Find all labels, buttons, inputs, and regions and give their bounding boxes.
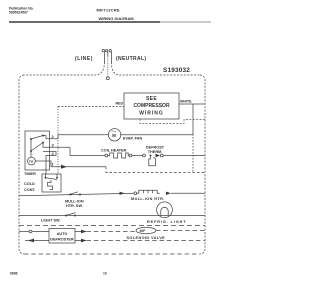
svg-text:(NEUTRAL): (NEUTRAL) <box>116 56 146 62</box>
svg-text:TIMER: TIMER <box>24 172 36 176</box>
svg-text:1: 1 <box>52 162 55 167</box>
timer wire C to terminal 3 <box>43 143 70 148</box>
svg-text:WIRING DIAGRAM: WIRING DIAGRAM <box>99 16 135 21</box>
svg-text:LIGHT SW.: LIGHT SW. <box>41 219 60 223</box>
wire defrost thermostat to neutral border <box>163 155 205 157</box>
label DEFROST THERM. <box>146 146 165 155</box>
svg-text:MRT13CRE: MRT13CRE <box>97 8 120 13</box>
wire compressor shell ground <box>140 119 205 124</box>
svg-text:DEFROSTER: DEFROSTER <box>50 238 74 242</box>
cold control stub left to terminal4 wire <box>45 174 47 178</box>
coil heater element R1 <box>108 153 130 158</box>
svg-text:COIL HEATER: COIL HEATER <box>101 149 127 153</box>
cold control bellows symbol <box>48 180 53 190</box>
compressor box text <box>133 96 170 117</box>
svg-text:THERM.: THERM. <box>148 150 163 154</box>
svg-text:HTR. SW.: HTR. SW. <box>66 204 83 208</box>
svg-text:RED: RED <box>116 102 124 106</box>
auto defroster box <box>49 229 75 244</box>
svg-text:AUTO: AUTO <box>57 232 68 236</box>
outer cabinet border bottom <box>24 253 200 255</box>
svg-text:REFRIG. LIGHT: REFRIG. LIGHT <box>147 220 187 224</box>
svg-text:TM: TM <box>29 159 34 163</box>
svg-text:10: 10 <box>103 272 107 276</box>
timer contact B <box>42 135 44 137</box>
svg-text:DEFROST: DEFROST <box>146 146 165 150</box>
header publication number text <box>9 7 34 15</box>
svg-text:MULL-ION: MULL-ION <box>65 200 84 204</box>
svg-text:0696: 0696 <box>10 272 18 276</box>
defrost thermostat bimetal bracket <box>149 157 156 166</box>
light switch <box>65 215 67 217</box>
coil heater terminal left <box>105 154 108 157</box>
svg-text:(LINE): (LINE) <box>75 56 93 62</box>
wire defroster bottom left with arrow <box>25 240 49 242</box>
cold control stub right to liner wire <box>56 174 58 178</box>
svg-text:M: M <box>112 133 116 138</box>
liner partition vertical x58 <box>57 107 59 175</box>
svg-text:COMPRESSOR: COMPRESSOR <box>133 103 170 109</box>
svg-text:3: 3 <box>52 143 55 148</box>
label MULL-ION HTR. SW. <box>65 200 84 209</box>
wire coil heater to defrost thermostat <box>132 155 143 157</box>
wire WHITE compressor to right border <box>179 103 205 105</box>
wire terminal 3 to coil heater <box>70 147 105 155</box>
ground terminal circle <box>106 77 109 80</box>
timer blade A-B <box>31 136 43 140</box>
mullion heater connector arrow right <box>166 192 171 195</box>
liner partition bottom dashed <box>19 225 205 227</box>
timer wire TM to terminal 1 <box>35 161 106 167</box>
svg-text:COLD: COLD <box>24 182 35 186</box>
timer wire B to terminal 2 <box>43 136 58 139</box>
evap fan motor <box>108 129 120 141</box>
svg-text:5995324597: 5995324597 <box>9 11 28 15</box>
wire plug left lead to left border <box>24 62 105 75</box>
wire terminal1 drop and defrost feed dashed <box>106 167 205 173</box>
wire mullion heater to neutral border <box>171 192 205 194</box>
svg-text:SOLENOID VALVE: SOLENOID VALVE <box>127 236 166 240</box>
wire evap fan to neutral <box>121 134 193 136</box>
svg-text:S193032: S193032 <box>163 67 190 74</box>
mullion heater switch <box>70 194 72 196</box>
power plug prong left <box>102 50 104 63</box>
coil heater terminal right <box>129 154 132 157</box>
wire mullion switch line <box>19 193 134 196</box>
svg-text:2: 2 <box>52 134 55 139</box>
header rule <box>9 21 160 23</box>
compressor box U1 <box>124 93 179 119</box>
defrost thermostat terminal right <box>160 154 163 157</box>
timer wire terminal 4 loop to cold control <box>43 152 56 175</box>
outer cabinet border left <box>19 75 24 254</box>
timer motor TM <box>28 157 36 165</box>
mullion heater terminal left <box>134 192 137 195</box>
cold control contact left <box>45 177 47 179</box>
svg-text:SEE: SEE <box>146 96 157 102</box>
mullion heater connector arrow left <box>120 192 125 195</box>
outer cabinet border right <box>200 75 205 254</box>
timer box <box>25 131 50 170</box>
cold control contact right <box>56 177 58 179</box>
timer blade D-C <box>31 143 43 152</box>
defrost thermostat arrow contact <box>156 154 161 158</box>
wire defroster top right with arrow to solenoid <box>75 231 86 233</box>
defroster terminal circle <box>29 230 32 233</box>
cold control blade <box>46 178 58 180</box>
solenoid valve oval <box>136 227 156 233</box>
power plug prong center (ground) <box>105 50 107 77</box>
wire solenoid to right border <box>156 230 205 232</box>
refrigerator light lamp <box>157 202 173 218</box>
cold control box <box>42 174 61 192</box>
timer internal wire A-D-TM <box>30 139 32 157</box>
power plug prong right <box>109 50 111 63</box>
wire neutral drop x193 <box>192 104 194 135</box>
wire light switch line <box>19 215 205 217</box>
wire plug right lead to right border <box>111 62 200 75</box>
liner partition x193 lower <box>192 134 194 173</box>
wire border to defroster top with terminal <box>19 231 49 233</box>
defrost thermostat contact dot <box>150 155 152 157</box>
wire terminal 2 to evap fan <box>58 135 108 139</box>
mullion heater element R2 <box>137 190 160 193</box>
wire defroster bottom right with arrow <box>75 240 86 242</box>
svg-text:40F: 40F <box>140 229 146 233</box>
defrost thermostat terminal left <box>143 154 146 157</box>
label COLD CONT. <box>24 182 35 192</box>
svg-text:CONT.: CONT. <box>24 188 35 192</box>
svg-text:MULL-ION HTR.: MULL-ION HTR. <box>131 197 165 201</box>
connector arrow on terminal 1 wire <box>61 165 67 169</box>
svg-text:WHITE: WHITE <box>180 100 192 104</box>
timer contact D <box>30 150 32 152</box>
timer contact C <box>42 142 44 144</box>
wire RED from liner corner to compressor <box>58 106 124 108</box>
timer contact A <box>30 138 32 140</box>
svg-text:EVAP. FAN: EVAP. FAN <box>123 137 143 141</box>
svg-text:WIRING: WIRING <box>139 111 164 117</box>
